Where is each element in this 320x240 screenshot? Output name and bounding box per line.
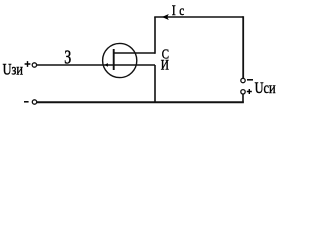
plus sign of Usi [247, 89, 252, 94]
minus sign bottom left [24, 101, 29, 103]
terminal (+) of Uzi [32, 63, 36, 67]
current arrow Ic (points left) [162, 14, 169, 20]
gate arrowhead (points left, p-channel) [104, 63, 108, 67]
minus sign of Usi [247, 79, 253, 81]
wire: stub from + terminal down to bottom rail [242, 94, 244, 103]
svg-text:I: I [172, 2, 176, 19]
svg-text:И: И [161, 56, 169, 73]
wire: drain vertical up to top rail [154, 17, 156, 54]
svg-text:Uзи: Uзи [3, 61, 24, 79]
wire: top rail [154, 16, 243, 18]
terminal (-) bottom left [32, 100, 36, 104]
transistor channel bar [113, 49, 115, 70]
terminal (-) of Usi [241, 78, 245, 82]
wire: source vertical down to bottom rail [154, 65, 156, 102]
wire: drain lead [114, 52, 155, 54]
svg-text:Uси: Uси [255, 79, 276, 97]
transistor VT body circle [103, 43, 137, 77]
label Uzi (gate-source voltage source) [3, 61, 24, 79]
wire: right vertical from top rail to minus terminal [242, 16, 244, 78]
terminal (+) of Usi [241, 90, 245, 94]
svg-text:З: З [64, 46, 71, 68]
wire: bottom rail [37, 101, 244, 103]
plus sign of Uzi terminal [25, 61, 31, 67]
wire: gate lead from + terminal to transistor channel, continues as source lead [37, 64, 155, 66]
svg-text:c: c [179, 3, 184, 18]
